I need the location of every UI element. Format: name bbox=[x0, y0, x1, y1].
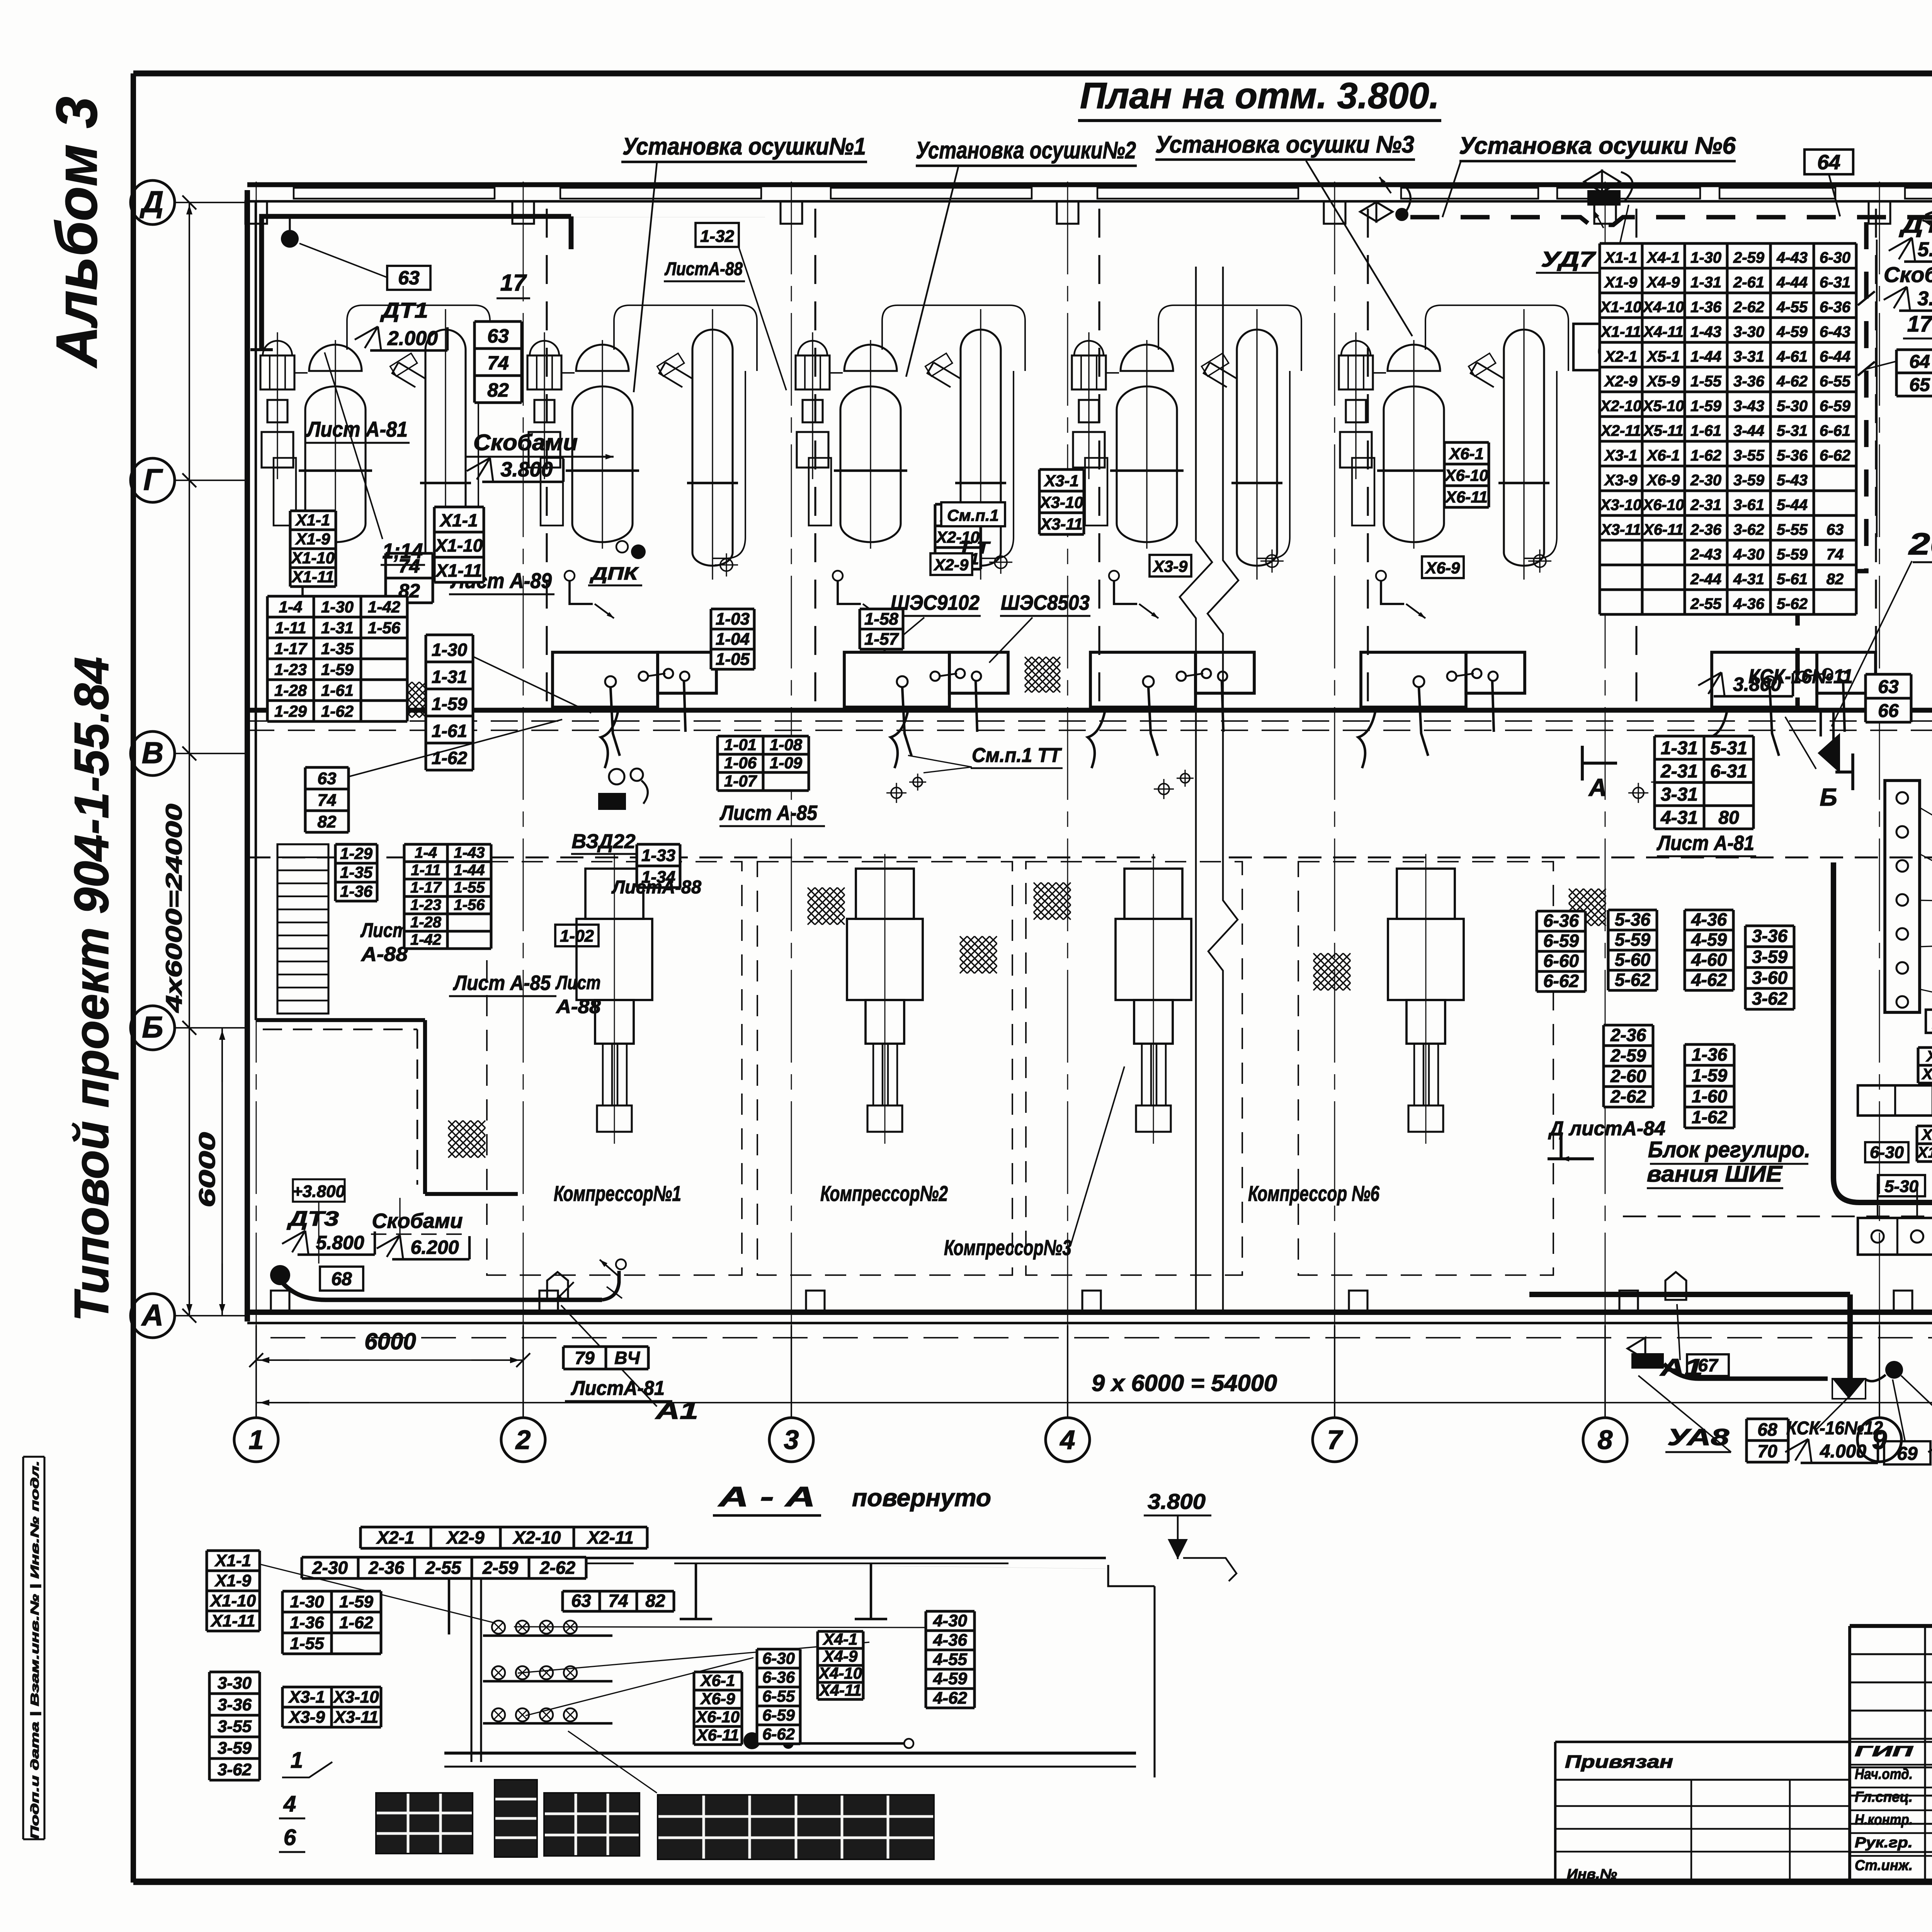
svg-text:63: 63 bbox=[398, 267, 420, 289]
axis bubble Б bbox=[131, 1006, 175, 1050]
svg-text:Х3-9: Х3-9 bbox=[1153, 557, 1188, 575]
svg-text:Х2-1: Х2-1 bbox=[376, 1527, 414, 1548]
svg-text:ЛистА-88: ЛистА-88 bbox=[664, 259, 743, 279]
svg-text:Х3-11: Х3-11 bbox=[1040, 515, 1083, 533]
svg-text:А: А bbox=[1588, 774, 1607, 801]
sensor ДТ1 dot bbox=[281, 230, 299, 248]
svg-text:4х6000=24000: 4х6000=24000 bbox=[162, 804, 187, 1013]
svg-text:1-17: 1-17 bbox=[410, 879, 442, 896]
svg-text:Х4-9: Х4-9 bbox=[823, 1647, 858, 1665]
svg-text:Д: Д bbox=[139, 185, 163, 219]
svg-text:Лист А-81: Лист А-81 bbox=[1656, 832, 1754, 855]
svg-text:68: 68 bbox=[331, 1269, 352, 1289]
КСК junction bbox=[1832, 1379, 1866, 1399]
svg-text:Компрессор №6: Компрессор №6 bbox=[1248, 1181, 1380, 1206]
svg-text:Х6-11: Х6-11 bbox=[696, 1726, 739, 1744]
svg-text:3-36: 3-36 bbox=[1752, 926, 1787, 946]
row 2-30..2-62 bbox=[302, 1557, 586, 1578]
svg-text:Х4-1: Х4-1 bbox=[1646, 249, 1680, 266]
svg-text:1-36: 1-36 bbox=[1692, 1044, 1727, 1065]
leaders row В bbox=[349, 719, 562, 777]
svg-text:Х3-10: Х3-10 bbox=[1922, 1066, 1932, 1083]
svg-text:74: 74 bbox=[1827, 546, 1844, 563]
svg-text:План на отм. 3.800.: План на отм. 3.800. bbox=[1080, 75, 1439, 116]
axis bubble А bbox=[131, 1294, 175, 1338]
axis bubble 2 bbox=[501, 1418, 545, 1462]
svg-text:Х2-11: Х2-11 bbox=[1600, 422, 1641, 439]
svg-text:А-88: А-88 bbox=[361, 943, 408, 966]
svg-text:3.800: 3.800 bbox=[1733, 673, 1781, 695]
svg-text:1-07: 1-07 bbox=[724, 772, 757, 790]
svg-text:6000: 6000 bbox=[195, 1132, 220, 1207]
svg-text:Х2-1: Х2-1 bbox=[1604, 348, 1638, 365]
ДТ4 sensor bbox=[1885, 1361, 1903, 1379]
svg-text:1-43: 1-43 bbox=[454, 844, 485, 861]
svg-text:2-36: 2-36 bbox=[1690, 521, 1722, 538]
svg-text:повернуто: повернуто bbox=[852, 1484, 991, 1512]
svg-text:Х6-9: Х6-9 bbox=[700, 1690, 735, 1708]
svg-text:2-36: 2-36 bbox=[368, 1558, 404, 1578]
svg-text:5-36: 5-36 bbox=[1777, 447, 1808, 464]
svg-text:4-60: 4-60 bbox=[1691, 950, 1727, 970]
svg-text:Скобами: Скобами bbox=[473, 430, 578, 455]
svg-text:Х1-1: Х1-1 bbox=[1604, 249, 1638, 266]
svg-text:6-62: 6-62 bbox=[1543, 971, 1579, 991]
svg-text:1: 1 bbox=[291, 1748, 303, 1773]
svg-text:6-59: 6-59 bbox=[1820, 398, 1851, 415]
svg-text:УА8: УА8 bbox=[1667, 1424, 1730, 1450]
table 1-29/1-35/1-36 bbox=[335, 844, 377, 901]
svg-text:17: 17 bbox=[500, 270, 527, 296]
svg-text:Б: Б bbox=[1820, 783, 1837, 811]
svg-text:5-44: 5-44 bbox=[1777, 497, 1808, 514]
svg-text:4-59: 4-59 bbox=[933, 1669, 968, 1688]
hatch squares machine hall bbox=[808, 888, 845, 925]
svg-text:ДПК: ДПК bbox=[589, 563, 639, 583]
svg-text:Д листА-84: Д листА-84 bbox=[1548, 1117, 1665, 1140]
svg-text:Х1-10: Х1-10 bbox=[1917, 1144, 1932, 1161]
boxes 63/74/82 row В bbox=[305, 767, 349, 832]
svg-text:3-31: 3-31 bbox=[1733, 348, 1764, 365]
svg-text:2-59: 2-59 bbox=[482, 1558, 518, 1578]
svg-text:74: 74 bbox=[608, 1591, 628, 1611]
table X3-1..X3-12 bbox=[1918, 1048, 1932, 1083]
svg-text:6-36: 6-36 bbox=[762, 1668, 795, 1686]
table 3-36 bbox=[1745, 926, 1794, 1009]
svg-text:1-59: 1-59 bbox=[339, 1592, 374, 1611]
svg-text:2-44: 2-44 bbox=[1690, 571, 1721, 588]
svg-text:2-36: 2-36 bbox=[1610, 1025, 1646, 1045]
box Х6-9 bbox=[1422, 556, 1464, 578]
smudge table 1 bbox=[376, 1793, 473, 1854]
svg-text:64: 64 bbox=[1909, 352, 1930, 372]
fan leader lines bbox=[514, 1627, 926, 1628]
svg-text:Скобами: Скобами bbox=[1884, 262, 1932, 287]
svg-text:Х3-10: Х3-10 bbox=[1600, 497, 1642, 514]
svg-text:1-56: 1-56 bbox=[368, 619, 401, 637]
svg-text:Х3-9: Х3-9 bbox=[288, 1708, 325, 1727]
svg-text:1-61: 1-61 bbox=[1690, 422, 1721, 439]
axis bubble Д bbox=[131, 180, 175, 224]
svg-text:Х1-10: Х1-10 bbox=[291, 549, 335, 567]
svg-text:1-29: 1-29 bbox=[274, 702, 307, 720]
svg-text:2-62: 2-62 bbox=[1733, 299, 1764, 316]
svg-text:Х3-1: Х3-1 bbox=[1044, 472, 1079, 490]
svg-text:1-33: 1-33 bbox=[641, 846, 675, 865]
svg-text:Х1-11: Х1-11 bbox=[1600, 323, 1641, 340]
svg-text:Установка осушки №3: Установка осушки №3 bbox=[1155, 131, 1414, 158]
svg-text:1-42: 1-42 bbox=[368, 598, 400, 616]
svg-text:4-36: 4-36 bbox=[933, 1631, 968, 1650]
svg-text:ДТ2: ДТ2 bbox=[1898, 213, 1932, 238]
ДПК device and label bbox=[631, 544, 646, 559]
svg-text:Гл.спец.: Гл.спец. bbox=[1855, 1789, 1913, 1805]
svg-text:ДТ1: ДТ1 bbox=[380, 298, 428, 322]
svg-text:3-61: 3-61 bbox=[1733, 497, 1764, 514]
svg-text:1;14: 1;14 bbox=[383, 539, 423, 563]
svg-text:1-61: 1-61 bbox=[432, 721, 467, 741]
leader lines right tables to strip bbox=[1920, 808, 1932, 1059]
svg-text:3.000: 3.000 bbox=[1917, 287, 1932, 310]
terminal strip ТВУ bbox=[1858, 1218, 1932, 1255]
svg-text:А: А bbox=[141, 1298, 163, 1332]
svg-text:1-01: 1-01 bbox=[724, 736, 757, 754]
svg-text:1-57: 1-57 bbox=[864, 630, 900, 649]
svg-text:3-44: 3-44 bbox=[1733, 422, 1764, 439]
labels +3.800 ДТ3 5.800 Скобами 6.200 bbox=[293, 1179, 345, 1202]
svg-text:4-36: 4-36 bbox=[1691, 910, 1727, 930]
table 6-36 bbox=[1537, 911, 1585, 992]
pilasters on top wall bbox=[245, 201, 267, 224]
machine hall upper boundary (dashed) bbox=[247, 856, 1155, 858]
compressor unit 3 bbox=[1116, 854, 1191, 1144]
svg-text:3-60: 3-60 bbox=[1752, 968, 1787, 988]
svg-text:69: 69 bbox=[1897, 1444, 1918, 1464]
svg-text:8: 8 bbox=[1598, 1425, 1613, 1455]
sheet frame bbox=[133, 70, 1932, 76]
svg-text:1-59: 1-59 bbox=[1690, 398, 1722, 415]
boxes 68/70 bbox=[1747, 1419, 1788, 1462]
svg-text:63: 63 bbox=[1827, 521, 1844, 538]
section mark А bbox=[1582, 746, 1617, 781]
svg-text:6-30: 6-30 bbox=[1870, 1143, 1904, 1162]
svg-text:1-30: 1-30 bbox=[321, 598, 354, 616]
svg-text:5-62: 5-62 bbox=[1777, 595, 1808, 612]
svg-text:2-31: 2-31 bbox=[1660, 761, 1698, 782]
svg-text:Х3-1: Х3-1 bbox=[1926, 1048, 1932, 1065]
svg-text:79: 79 bbox=[575, 1348, 595, 1368]
svg-text:Установка осушки№1: Установка осушки№1 bbox=[622, 133, 866, 160]
svg-text:1-58: 1-58 bbox=[864, 610, 899, 629]
svg-text:Привязан: Привязан bbox=[1565, 1752, 1673, 1772]
svg-text:1-31: 1-31 bbox=[1661, 738, 1698, 759]
svg-text:1-4: 1-4 bbox=[415, 844, 437, 861]
svg-text:1-29: 1-29 bbox=[340, 844, 373, 862]
svg-text:5-62: 5-62 bbox=[1615, 970, 1650, 990]
table 1-01 block bbox=[718, 736, 809, 791]
svg-text:4: 4 bbox=[1060, 1425, 1075, 1455]
svg-text:Компрессор№3: Компрессор№3 bbox=[944, 1235, 1071, 1260]
terminal strip upper bbox=[1858, 1085, 1932, 1116]
svg-text:1-55: 1-55 bbox=[454, 879, 485, 896]
svg-text:5-59: 5-59 bbox=[1615, 930, 1650, 950]
svg-text:Скобами: Скобами bbox=[372, 1209, 463, 1233]
smudge table 3 bbox=[544, 1793, 639, 1856]
svg-text:Х1-10: Х1-10 bbox=[1600, 299, 1642, 316]
svg-text:4-30: 4-30 bbox=[933, 1611, 968, 1630]
dashed bay enclosure 3 bbox=[1026, 862, 1242, 1275]
dryer unit cluster bay 3 bbox=[796, 305, 1025, 618]
svg-text:5-36: 5-36 bbox=[1615, 910, 1650, 930]
svg-text:65: 65 bbox=[1909, 375, 1930, 395]
svg-text:Х6-11: Х6-11 bbox=[1445, 488, 1488, 506]
smudge table 4 bbox=[658, 1795, 934, 1859]
svg-text:1-59: 1-59 bbox=[432, 694, 467, 714]
svg-text:6000: 6000 bbox=[364, 1328, 416, 1354]
svg-text:1-62: 1-62 bbox=[1692, 1107, 1727, 1127]
svg-text:6-30: 6-30 bbox=[762, 1649, 795, 1667]
svg-text:Подп.и дата | Взам.инв.№ | Инв: Подп.и дата | Взам.инв.№ | Инв.№ подл. bbox=[29, 1461, 41, 1839]
svg-text:1-35: 1-35 bbox=[321, 639, 354, 658]
svg-text:1-23: 1-23 bbox=[274, 660, 307, 679]
svg-text:2-31: 2-31 bbox=[1690, 497, 1721, 514]
svg-text:В: В bbox=[142, 736, 163, 770]
svg-text:1-59: 1-59 bbox=[1692, 1065, 1727, 1085]
break lines (обрыв) bbox=[1180, 267, 1212, 1314]
svg-text:4-31: 4-31 bbox=[1733, 571, 1764, 588]
svg-text:6-55: 6-55 bbox=[762, 1687, 795, 1705]
svg-text:3-30: 3-30 bbox=[218, 1674, 252, 1693]
table 1-36 bbox=[1685, 1044, 1734, 1128]
box Х3-9 bbox=[1150, 555, 1191, 577]
svg-text:Х2-10: Х2-10 bbox=[512, 1527, 561, 1548]
svg-text:1-11: 1-11 bbox=[275, 619, 306, 637]
svg-text:5-30: 5-30 bbox=[1777, 398, 1808, 415]
svg-text:1-56: 1-56 bbox=[454, 896, 485, 913]
sect table 1-30 bbox=[282, 1591, 381, 1654]
svg-text:4-59: 4-59 bbox=[1691, 930, 1727, 950]
svg-text:Лист: Лист bbox=[555, 972, 601, 993]
svg-text:1-08: 1-08 bbox=[770, 736, 803, 754]
svg-text:Х6-1: Х6-1 bbox=[1646, 447, 1680, 464]
sect table 6-30 bbox=[757, 1649, 800, 1744]
svg-text:1-30: 1-30 bbox=[432, 640, 467, 660]
boxes 63/74/82 top-left bbox=[474, 321, 522, 403]
svg-text:4-55: 4-55 bbox=[1776, 299, 1808, 316]
axis bubble 4 bbox=[1046, 1418, 1090, 1462]
svg-text:1-11: 1-11 bbox=[411, 862, 440, 879]
svg-text:4-44: 4-44 bbox=[1776, 274, 1808, 291]
box 65 bbox=[1573, 324, 1649, 370]
svg-text:Х3-11: Х3-11 bbox=[333, 1708, 378, 1727]
svg-text:2-59: 2-59 bbox=[1733, 249, 1765, 266]
svg-text:4-62: 4-62 bbox=[933, 1689, 968, 1708]
cable trunk ДТ1 top-left bbox=[262, 216, 571, 350]
sect table 4-30 bbox=[926, 1611, 975, 1708]
svg-text:1-28: 1-28 bbox=[274, 681, 307, 699]
svg-text:2-62: 2-62 bbox=[1610, 1086, 1646, 1106]
svg-text:Типовой проект 904-1-55.84: Типовой проект 904-1-55.84 bbox=[65, 657, 119, 1321]
hooks dropping from panels into corridor bbox=[601, 710, 618, 768]
svg-text:Х4-11: Х4-11 bbox=[1643, 323, 1684, 340]
svg-text:3-59: 3-59 bbox=[1733, 472, 1765, 489]
svg-text:3: 3 bbox=[784, 1425, 799, 1455]
svg-text:1-36: 1-36 bbox=[340, 882, 373, 900]
svg-text:Х5-9: Х5-9 bbox=[1646, 373, 1680, 390]
svg-text:2-55: 2-55 bbox=[425, 1558, 461, 1578]
svg-text:6.200: 6.200 bbox=[410, 1236, 459, 1258]
svg-text:3-59: 3-59 bbox=[218, 1739, 252, 1758]
hatch squares upper hall bbox=[1025, 657, 1060, 692]
svg-text:Компрессор№1: Компрессор№1 bbox=[554, 1181, 681, 1206]
svg-text:Х1-10: Х1-10 bbox=[434, 536, 483, 556]
corridor drains bbox=[891, 787, 902, 798]
boxes 6-30..2-30 bbox=[1865, 1142, 1908, 1162]
table 1-03/04/05 bbox=[711, 609, 754, 669]
dryer unit cluster bay 2 bbox=[527, 305, 757, 618]
svg-text:6-59: 6-59 bbox=[762, 1706, 795, 1724]
svg-text:64: 64 bbox=[1817, 151, 1840, 174]
svg-text:Х1-1: Х1-1 bbox=[295, 511, 330, 529]
svg-text:1-35: 1-35 bbox=[340, 863, 373, 881]
svg-text:5-55: 5-55 bbox=[1777, 521, 1808, 538]
caption: Альбом 3 bbox=[44, 97, 109, 369]
svg-text:ЛистА-81: ЛистА-81 bbox=[570, 1377, 665, 1400]
svg-text:1-55: 1-55 bbox=[1690, 373, 1722, 390]
svg-text:4-62: 4-62 bbox=[1691, 970, 1727, 990]
svg-text:6-62: 6-62 bbox=[762, 1725, 795, 1743]
Д лист А-84 bbox=[1548, 1132, 1594, 1159]
dashed cable top right bbox=[1410, 217, 1932, 225]
svg-text:Х1-9: Х1-9 bbox=[214, 1571, 251, 1590]
table 1-02 bbox=[555, 925, 599, 946]
svg-text:Нач.отд.: Нач.отд. bbox=[1855, 1766, 1913, 1782]
svg-text:4.000: 4.000 bbox=[1820, 1441, 1866, 1462]
svg-text:1-32: 1-32 bbox=[700, 227, 735, 246]
boxes 79 ВЧ bbox=[563, 1347, 648, 1369]
svg-text:Х3-11: Х3-11 bbox=[1600, 521, 1641, 538]
svg-text:2-61: 2-61 bbox=[1733, 274, 1764, 291]
table X1 (4) bbox=[290, 511, 336, 587]
svg-text:Х5-10: Х5-10 bbox=[1642, 398, 1684, 415]
svg-text:20: 20 bbox=[1908, 527, 1932, 561]
svg-text:4-59: 4-59 bbox=[1776, 323, 1808, 340]
svg-text:82: 82 bbox=[487, 379, 509, 401]
table 4-36 bbox=[1685, 910, 1733, 990]
axis bubble 8 bbox=[1583, 1418, 1627, 1462]
svg-text:2-55: 2-55 bbox=[1690, 595, 1722, 612]
А1 labels bbox=[547, 1272, 568, 1300]
См.п.1 ТТ box bbox=[941, 502, 1005, 526]
svg-text:6-31: 6-31 bbox=[1710, 761, 1747, 782]
svg-text:Х5-1: Х5-1 bbox=[1646, 348, 1680, 365]
svg-text:Х1-11: Х1-11 bbox=[291, 568, 334, 586]
svg-text:6-61: 6-61 bbox=[1820, 422, 1850, 439]
axis bubble 1 bbox=[234, 1418, 278, 1462]
svg-text:4-31: 4-31 bbox=[1660, 808, 1698, 828]
svg-text:Установка осушки №6: Установка осушки №6 bbox=[1459, 133, 1736, 159]
svg-text:Г: Г bbox=[143, 463, 163, 497]
svg-text:Х6-10: Х6-10 bbox=[1444, 466, 1488, 485]
svg-text:1-31: 1-31 bbox=[321, 619, 354, 637]
svg-text:ВЗД22: ВЗД22 bbox=[572, 830, 636, 853]
svg-text:3-55: 3-55 bbox=[1733, 447, 1765, 464]
table 1-4/1-43 bbox=[404, 844, 491, 949]
svg-text:Х3-10: Х3-10 bbox=[332, 1688, 379, 1707]
panel ШЭС group 3 bbox=[1090, 652, 1254, 756]
table 1-33/1-34 bbox=[637, 844, 680, 888]
svg-text:74: 74 bbox=[487, 352, 509, 374]
svg-text:1-31: 1-31 bbox=[1690, 274, 1721, 291]
stair flight lower-left bbox=[277, 844, 328, 1014]
leader 2 bbox=[906, 167, 958, 377]
boxes 64/65 bbox=[1896, 350, 1932, 396]
svg-text:6-36: 6-36 bbox=[1543, 911, 1579, 931]
svg-text:1-4: 1-4 bbox=[279, 598, 303, 616]
axis bubble 3 bbox=[769, 1418, 813, 1462]
svg-text:Х4-10: Х4-10 bbox=[1642, 299, 1684, 316]
label 63 box bbox=[387, 266, 430, 290]
svg-text:1-30: 1-30 bbox=[290, 1592, 324, 1611]
svg-text:4-61: 4-61 bbox=[1776, 348, 1808, 365]
svg-text:2-30: 2-30 bbox=[1690, 472, 1721, 489]
svg-text:4-62: 4-62 bbox=[1776, 373, 1808, 390]
vertical terminal strip (20 trunk) bbox=[1885, 781, 1920, 1012]
svg-text:6-59: 6-59 bbox=[1543, 931, 1579, 951]
compressor unit 4 bbox=[1388, 854, 1464, 1144]
svg-text:Х1-1: Х1-1 bbox=[439, 510, 478, 531]
dashed trunk descending right bbox=[1798, 222, 1866, 710]
svg-text:3-36: 3-36 bbox=[218, 1696, 252, 1714]
thin wall line right of trunk bbox=[1876, 240, 1878, 537]
svg-text:А1: А1 bbox=[1659, 1354, 1703, 1381]
svg-text:5-30: 5-30 bbox=[1884, 1177, 1919, 1196]
leader 6 bbox=[1442, 162, 1461, 217]
svg-text:5-43: 5-43 bbox=[1777, 472, 1808, 489]
axis bubble 7 bbox=[1313, 1418, 1357, 1462]
svg-text:2-62: 2-62 bbox=[539, 1558, 575, 1578]
svg-text:Х5-11: Х5-11 bbox=[1643, 422, 1684, 439]
svg-text:5-31: 5-31 bbox=[1710, 738, 1747, 759]
dryer unit cluster bay 5 bbox=[1339, 305, 1568, 618]
svg-text:2-43: 2-43 bbox=[1690, 546, 1721, 563]
svg-text:Х6-10: Х6-10 bbox=[696, 1708, 740, 1726]
svg-text:82: 82 bbox=[1827, 571, 1844, 588]
svg-text:1-36: 1-36 bbox=[1690, 299, 1722, 316]
svg-text:2-60: 2-60 bbox=[1610, 1066, 1646, 1086]
svg-text:5-59: 5-59 bbox=[1777, 546, 1808, 563]
svg-text:1-42: 1-42 bbox=[410, 931, 441, 948]
svg-text:Т Т: Т Т bbox=[958, 538, 991, 557]
svg-text:А - А: А - А bbox=[718, 1481, 815, 1512]
svg-text:1-60: 1-60 bbox=[1692, 1086, 1727, 1106]
svg-text:1-62: 1-62 bbox=[339, 1613, 374, 1632]
thick cable loop bbox=[1833, 862, 1932, 1279]
svg-text:УД7: УД7 bbox=[1541, 247, 1597, 271]
apron line below bottom wall bbox=[270, 1337, 1932, 1338]
compressor unit 1 bbox=[577, 854, 652, 1144]
svg-text:1-55: 1-55 bbox=[290, 1634, 324, 1653]
svg-text:Компрессор№2: Компрессор№2 bbox=[820, 1181, 948, 1206]
svg-text:А-88: А-88 bbox=[555, 996, 600, 1017]
svg-text:Х1-1: Х1-1 bbox=[214, 1551, 251, 1570]
svg-text:См.п.1: См.п.1 bbox=[947, 506, 999, 524]
svg-text:Х4-1: Х4-1 bbox=[823, 1630, 858, 1648]
svg-text:3-36: 3-36 bbox=[1733, 373, 1765, 390]
wall: left (axis 1) bbox=[245, 190, 250, 1321]
svg-text:Лист А-85: Лист А-85 bbox=[452, 971, 551, 995]
box 67 bbox=[1687, 1354, 1729, 1376]
